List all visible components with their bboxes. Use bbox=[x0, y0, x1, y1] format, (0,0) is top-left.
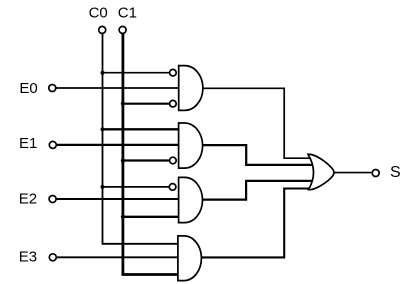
svg-text:E1: E1 bbox=[19, 135, 37, 152]
terminal C0 bbox=[99, 26, 106, 33]
wire E3 bbox=[57, 256, 180, 258]
svg-text:E3: E3 bbox=[19, 248, 37, 265]
junction C1-U2 bbox=[121, 158, 125, 162]
wire C0 to U3 bbox=[103, 186, 170, 188]
wire U2 output bbox=[203, 145, 314, 165]
junction C0-U3 bbox=[101, 185, 105, 189]
terminal C1 bbox=[119, 26, 126, 33]
svg-text:C1: C1 bbox=[118, 5, 137, 22]
bubble U1 input C0 bbox=[170, 69, 177, 76]
and-gate U1 bbox=[179, 66, 203, 111]
bubble U2 input C1 bbox=[170, 157, 177, 164]
and-gate U3 bbox=[179, 177, 203, 222]
and-gate U4 bbox=[178, 236, 202, 281]
or-gate U5 bbox=[308, 154, 334, 189]
wire C1 to U3 bbox=[123, 216, 179, 218]
svg-text:S: S bbox=[390, 164, 401, 181]
wire E0 bbox=[56, 87, 179, 89]
wire U3 output bbox=[203, 181, 314, 200]
and-gate U2 bbox=[179, 123, 203, 168]
wire U1 output bbox=[203, 88, 313, 158]
wire S output bbox=[334, 172, 372, 174]
terminal E0 bbox=[49, 85, 56, 92]
wire C1 to U2 bbox=[123, 159, 170, 161]
wire C0 to U1 bbox=[103, 72, 170, 74]
junction C0-U1 bbox=[101, 71, 105, 75]
wire C0 to U2 bbox=[103, 128, 180, 130]
bubble U1 input C1 bbox=[170, 100, 177, 107]
svg-text:E0: E0 bbox=[19, 80, 37, 97]
terminal E3 bbox=[49, 254, 56, 261]
wire C0 rail bbox=[103, 34, 180, 244]
terminal E1 bbox=[49, 141, 56, 148]
wire E2 bbox=[56, 198, 179, 200]
svg-text:C0: C0 bbox=[89, 5, 108, 22]
wire C1 rail bbox=[123, 34, 179, 275]
wire C1 to U1 bbox=[123, 103, 170, 105]
wire E1 bbox=[57, 144, 180, 146]
junction C1-U3 bbox=[121, 215, 125, 219]
bubble U3 input C0 bbox=[169, 184, 176, 191]
svg-text:E2: E2 bbox=[19, 191, 37, 208]
junction C0-U2 bbox=[101, 127, 105, 131]
terminal S bbox=[372, 170, 379, 177]
junction C1-U1 bbox=[121, 102, 125, 106]
terminal E2 bbox=[49, 196, 56, 203]
wire U4 output bbox=[202, 189, 311, 258]
